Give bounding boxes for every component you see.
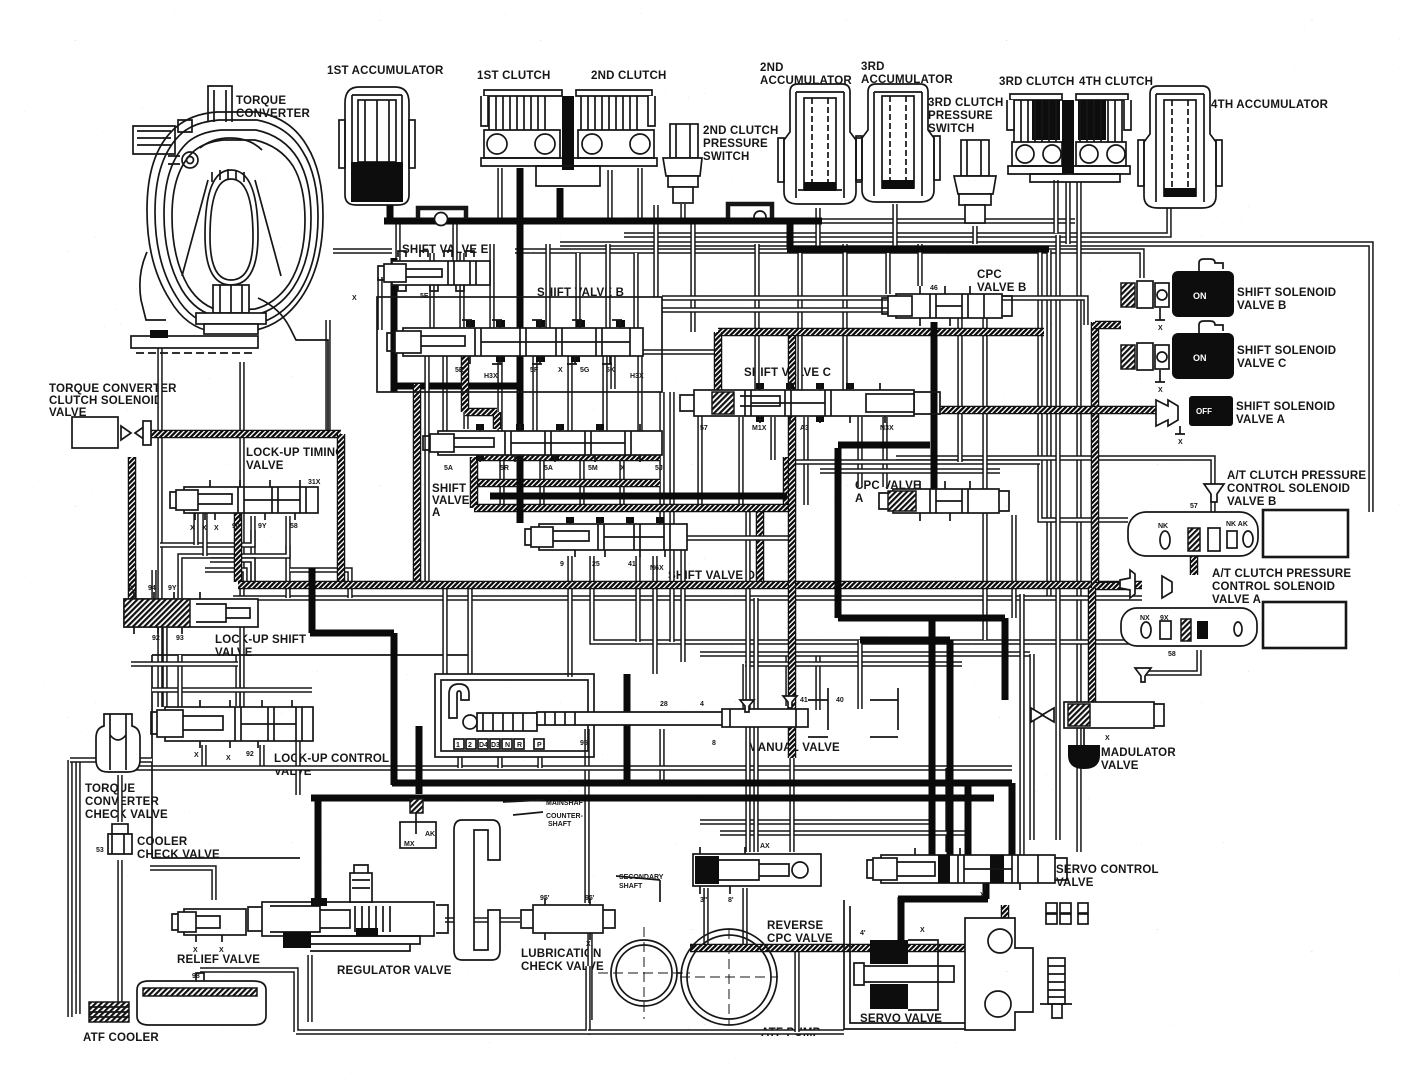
- wire thick CPC A path: [838, 445, 1005, 700]
- wire SVD to manual extra: [652, 556, 657, 674]
- wire SVA bottom drops: [499, 455, 504, 506]
- wire bottom frame: [200, 966, 588, 1032]
- clutch 2nd: [536, 90, 657, 186]
- wire regulator to pump: [445, 917, 520, 922]
- servo valve: [844, 900, 1088, 1030]
- wire SVD drain 1: [567, 556, 572, 677]
- wire manual valve funnel 40: [785, 652, 790, 706]
- wire thick servo L: [898, 883, 988, 950]
- wire hatched 5E elbow: [465, 356, 497, 429]
- ATF cooler: [89, 973, 266, 1025]
- wire SVE to SVB thin links: [377, 277, 382, 330]
- torque converter: [131, 86, 328, 430]
- wire lockup timing staircase: [180, 545, 288, 598]
- wire thick clutch feed: [557, 188, 564, 221]
- wire lock-up shift left port: [162, 628, 167, 707]
- wire SVD right to hatch: [687, 535, 792, 540]
- wire reverse CPC drains: [703, 888, 708, 948]
- clutch 4th: [1030, 94, 1131, 182]
- wire thick regulator feed: [315, 798, 322, 898]
- wire thick to SVB x520: [517, 168, 524, 523]
- wire thick bottom bus 2: [311, 795, 994, 802]
- ATF pump: [598, 927, 778, 1025]
- mainshaft countershaft lube path: [400, 799, 660, 960]
- wire 2nd clutch drain: [607, 170, 612, 219]
- wire hatched h7 SVA frame: [470, 457, 479, 508]
- port caps shift valve B: [466, 320, 625, 362]
- wire 2nd accumulator drain: [815, 208, 820, 247]
- lubrication check valve: [521, 895, 615, 948]
- wire 3rd clutch line down right: [1055, 235, 1060, 840]
- secondary gear pair circles join: [677, 972, 681, 974]
- wire thick under SVA y496: [490, 493, 787, 500]
- wire left frame vertical: [67, 760, 72, 1017]
- wire thick lockup right to bottom: [310, 568, 394, 785]
- torque converter clutch solenoid valve: [72, 417, 151, 448]
- wire bus y768: [131, 765, 1012, 770]
- wire right mid verticals: [1019, 594, 1024, 858]
- wire SVD drain 4: [680, 545, 685, 662]
- wire hatched h1 TC solenoid line: [148, 430, 341, 439]
- wire horiz feed y654: [700, 651, 1030, 656]
- wire thick CPC B to A x934: [931, 322, 938, 490]
- pressure switch 2nd clutch: [663, 124, 702, 203]
- shift valve A: [423, 424, 663, 472]
- wire 3rd accumulator drain: [892, 204, 897, 250]
- wire horiz feed y664: [745, 661, 962, 666]
- lock-up shift valve: [124, 585, 258, 642]
- shift valve C: [680, 383, 940, 432]
- wire lock-up shift port 2: [235, 656, 240, 706]
- wire regulator down: [307, 955, 312, 1022]
- wire hatched h2 left vertical: [128, 457, 137, 600]
- wire hatched h6 SVC frame: [718, 328, 1044, 337]
- wire y221 thin right: [822, 218, 1075, 223]
- wire hatched h9 bottom right: [690, 944, 1005, 953]
- shift valve E: [352, 251, 490, 302]
- wire thick 1st accumulator out: [387, 203, 394, 221]
- wire SVC drains: [738, 417, 743, 505]
- accumulator 2nd: [778, 84, 862, 204]
- wire LCV frame: [152, 655, 472, 858]
- manual valve spool: [537, 688, 898, 747]
- AT clutch pressure control solenoid valve A: [1120, 570, 1346, 682]
- wire thick x419 lower: [416, 726, 423, 794]
- cooler check valve: [96, 824, 132, 854]
- wire drops to SVB top: [429, 253, 434, 328]
- CPC valve A: [879, 481, 1009, 521]
- wire manual area extra: [857, 640, 862, 709]
- wire right vertical x1040 to CPC B: [1040, 250, 1128, 520]
- wire manual valve port feed: [815, 654, 820, 710]
- clutch 3rd: [1007, 94, 1066, 174]
- wire manual valve funnel 41: [742, 664, 747, 710]
- wire manual valve drop 1: [659, 729, 664, 780]
- wire 2nd clutch pressure switch drop: [653, 205, 658, 297]
- wire TC right vertical 91: [325, 320, 330, 430]
- wire thick bottom bus 1: [392, 780, 1012, 787]
- wire lock-up timing drain 1: [250, 516, 255, 585]
- shift valve B enclosure: [377, 297, 662, 392]
- shift solenoid valve A: [1156, 396, 1233, 446]
- wire double x427: [424, 356, 429, 585]
- pressure switch 3rd clutch: [954, 140, 996, 223]
- CPC valve B: [882, 285, 1012, 326]
- wire 3rd clutch drain 30: [1053, 180, 1058, 233]
- lock-up control valve: [151, 700, 313, 762]
- wire 3rd clutch ps drain: [972, 226, 977, 244]
- accumulator 1st: [339, 87, 415, 205]
- check ball near 1st accumulator: [435, 213, 448, 226]
- wire staircase LTV to bus: [210, 560, 253, 585]
- wire thick manual feed: [624, 674, 631, 783]
- wire LUSV to LCV links: [131, 661, 238, 666]
- wire thick servo feeds: [860, 618, 968, 858]
- wire hatched h3 x417: [413, 384, 422, 582]
- wire thick x394 upper: [391, 258, 398, 392]
- wire TC check valve to cooler check: [117, 775, 122, 822]
- wire CPC B drops: [917, 244, 922, 286]
- wire thick SVB link y386: [394, 383, 520, 390]
- wire hatched SVA frame right: [783, 457, 792, 508]
- wire SVE feed stubs: [395, 221, 400, 261]
- wire hatched h11 to modulator: [1088, 588, 1097, 702]
- AT clutch pressure control solenoid valve B: [1128, 484, 1348, 557]
- clutch 1st: [481, 90, 566, 166]
- shift solenoid valve B: [1121, 259, 1234, 332]
- shift valve B: [387, 320, 644, 380]
- accumulator 4th: [1138, 86, 1222, 208]
- wire SVB right links down: [610, 356, 615, 389]
- regulator valve: [248, 865, 448, 951]
- wire CPC A solenoid out elbow: [1143, 650, 1199, 673]
- reverse CPC valve: [693, 843, 821, 904]
- wire SVD drain 3: [635, 556, 640, 642]
- wire CPC B right to funnel: [896, 458, 1213, 517]
- wire SVB right to SVC frame: [643, 349, 718, 354]
- wire LCV drain 2: [259, 745, 264, 766]
- wire hatched h5 right vertical x1095: [1091, 322, 1100, 588]
- wire SVD drain 2: [592, 556, 1140, 642]
- wire right of SVC verticals down: [659, 392, 664, 524]
- wire drops to SVC top: [754, 244, 759, 390]
- accumulator 3rd: [856, 84, 940, 202]
- wire thick y249: [787, 222, 1049, 249]
- wire bus under hatch y598: [233, 595, 1142, 600]
- wire bus y253 to solenoid B: [333, 248, 392, 253]
- wire 2nd clutch ps stem: [680, 204, 685, 221]
- wire pump bottom line: [588, 1029, 844, 1034]
- wire horiz y298 to solenoid area: [662, 298, 1086, 325]
- manual valve assembly box: [435, 674, 594, 757]
- port caps shift valve D: [566, 517, 664, 523]
- shift solenoid valve C: [1121, 321, 1234, 394]
- wire bus y235 from 4th accumulator: [624, 206, 1169, 235]
- port caps shift valve A: [476, 424, 604, 461]
- wire bypass loop 2: [728, 204, 772, 219]
- wire lock-up timing port stubs: [193, 513, 198, 545]
- wire lock-up shift top stubs: [131, 570, 136, 598]
- modulator valve: [1031, 702, 1164, 769]
- wire right frame vertical x1049: [1046, 250, 1051, 598]
- wire servo feed horizontals: [700, 819, 930, 824]
- wire hatched under SVA y483: [475, 479, 660, 488]
- wire TC shaft left vertical: [157, 330, 162, 707]
- wire cooler check down: [117, 860, 122, 1002]
- wire 4th clutch line 40 long: [1076, 182, 1081, 852]
- wire bottom center-right vertical: [794, 952, 799, 1032]
- servo control valve: [867, 848, 1067, 899]
- wire lock-up timing drain 2: [285, 516, 290, 598]
- lock-up timing valve: [170, 479, 321, 532]
- wire manual valve 95 drop: [584, 729, 589, 903]
- port caps shift valve C: [756, 383, 854, 422]
- PIPES-THIN: [70, 168, 1371, 1032]
- wire hatched h8 manual right vertical: [788, 336, 797, 758]
- wire LCV drain 1: [201, 745, 206, 766]
- wire TC shaft vertical 2: [239, 362, 244, 713]
- wire SVB-SVA interlinks: [442, 356, 447, 431]
- wire relief valve feed: [150, 868, 214, 900]
- wire left edge verticals: [75, 760, 80, 1014]
- torque converter check valve: [96, 714, 140, 772]
- wire thick right bus drop: [1009, 783, 1016, 862]
- wire clutch drains extra: [497, 168, 502, 219]
- shift valve D: [525, 517, 687, 572]
- relief valve: [172, 909, 246, 954]
- wire long verticals to reverse CPC: [745, 505, 750, 852]
- wire thick loop bypass: [418, 208, 466, 219]
- wire bus y244 to right frame: [560, 244, 1371, 512]
- wire 4th clutch center line: [1065, 182, 1070, 244]
- wire SVB to SVA link: [463, 356, 468, 429]
- wire SVC to CPC-A horizontals: [795, 459, 1040, 464]
- wire hatched h4 long bus y585: [234, 505, 243, 582]
- wire CPC A right down: [1011, 515, 1016, 618]
- wire LCV area links: [152, 687, 312, 692]
- wire servo control feed: [945, 768, 950, 852]
